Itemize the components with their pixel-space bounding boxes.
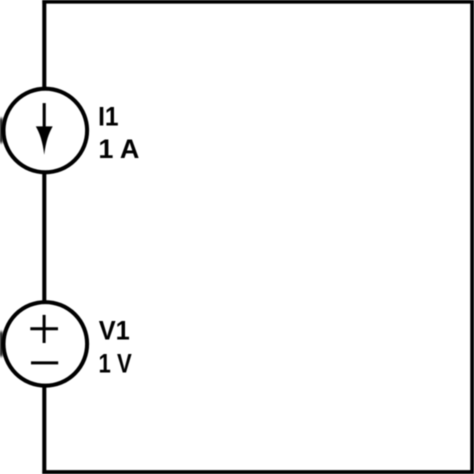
svg-text:V1: V1 [99,315,130,346]
svg-text:1 A: 1 A [98,134,139,164]
svg-text:1 V: 1 V [99,349,133,379]
svg-text:I1: I1 [98,102,118,131]
